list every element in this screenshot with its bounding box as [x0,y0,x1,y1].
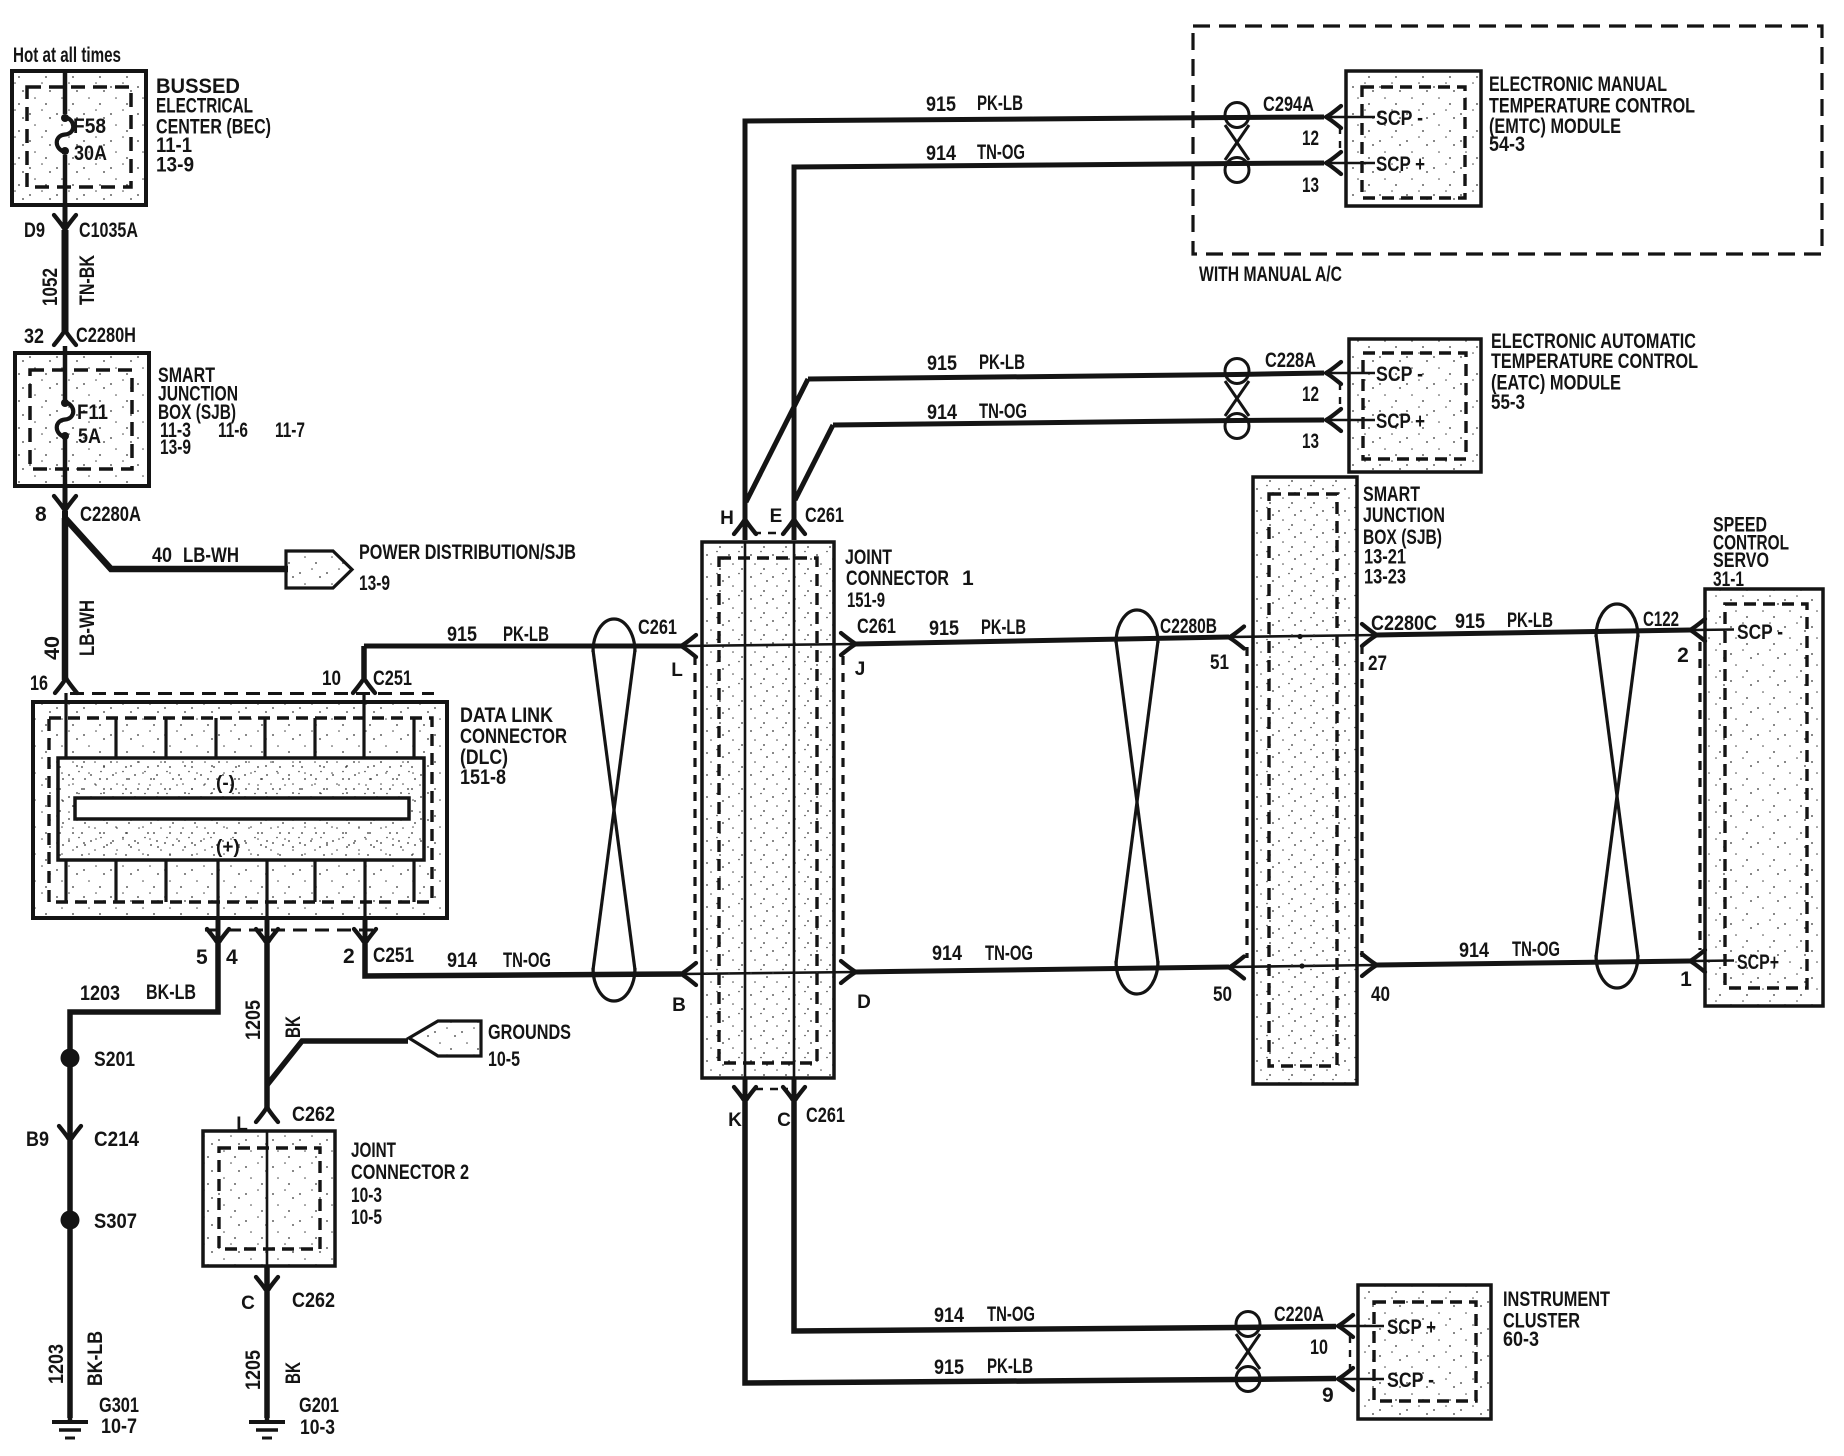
svg-text:11-6: 11-6 [218,419,248,442]
svg-text:ELECTRONIC MANUAL: ELECTRONIC MANUAL [1489,73,1667,96]
label WITH MANUAL A/C [1199,263,1342,286]
svg-text:POWER DISTRIBUTION/SJB: POWER DISTRIBUTION/SJB [359,541,576,564]
svg-text:(+): (+) [216,837,240,858]
EATC module box [1349,339,1481,472]
label 914 TN-OG EATC [927,400,1027,424]
svg-text:SCP -: SCP - [1737,621,1783,644]
svg-text:5: 5 [196,946,208,969]
label SJB right text [1363,483,1445,589]
svg-text:PK-LB: PK-LB [977,92,1023,115]
svg-text:8: 8 [35,503,47,526]
svg-text:13-9: 13-9 [156,154,194,177]
wire 915 JC1 to SJB [856,637,1229,644]
label C228A pins [1265,349,1319,453]
DLC C251 top dashed line [70,692,434,695]
svg-text:C261: C261 [805,504,844,527]
svg-text:B: B [672,995,686,1016]
grounds pointer [409,1021,571,1071]
svg-text:914: 914 [1459,939,1489,962]
wire 914 TN-OG DLC to JC1 [365,944,681,976]
wire 915 H vertical [743,121,748,1078]
junction dots in SJB [1297,634,1304,969]
svg-text:TN-BK: TN-BK [76,255,99,305]
joint connector 2 box [203,1131,335,1266]
label 915 PK-LB left [447,623,549,646]
svg-text:C2280C: C2280C [1371,612,1437,635]
label DLC text [460,704,567,789]
label SCP cluster [1387,1316,1436,1392]
connector C261 J arrow [841,615,896,680]
svg-text:F11: F11 [77,401,108,424]
svg-text:TN-OG: TN-OG [503,949,551,972]
label 915 PK-LB bottom [934,1355,1033,1379]
svg-text:915: 915 [929,617,959,640]
bussed electrical center (BEC) box [12,71,146,205]
label SCP EATC [1376,363,1425,433]
label servo text [1713,514,1789,592]
svg-text:13-9: 13-9 [359,572,390,595]
svg-text:SMART: SMART [1363,483,1420,506]
label SCP servo [1737,621,1783,974]
svg-text:1203: 1203 [80,982,120,1005]
smart junction box right [1253,477,1357,1084]
svg-text:BK: BK [282,1362,305,1384]
svg-text:40: 40 [1371,983,1390,1006]
label cluster text [1503,1288,1610,1351]
svg-text:BK-LB: BK-LB [84,1331,107,1386]
svg-text:LB-WH: LB-WH [76,600,99,656]
svg-text:PK-LB: PK-LB [987,1355,1033,1378]
svg-text:G201: G201 [299,1394,339,1417]
splice S307 [61,1210,138,1233]
wire thin through JC2 [266,1131,269,1266]
label joint connector 2 [351,1139,469,1229]
label SCP EMTC [1376,107,1425,176]
svg-text:DATA LINK: DATA LINK [460,704,553,727]
wire 914 to EATC [795,420,1324,500]
connector C261 C arrow [777,1078,845,1131]
svg-text:SCP -: SCP - [1376,107,1423,130]
svg-text:TN-OG: TN-OG [987,1303,1035,1326]
svg-text:B9: B9 [26,1128,49,1151]
label 914 TN-OG right [1459,938,1560,962]
connector C2280H pin 32 [24,324,136,348]
joint connector 1 box [702,542,834,1078]
svg-text:TEMPERATURE CONTROL: TEMPERATURE CONTROL [1491,350,1698,373]
wire 915 thin through JC1 [681,644,856,646]
svg-text:914: 914 [934,1304,964,1327]
label 914 TN-OG bottom [934,1303,1035,1327]
wire 914 thin through SJB [1229,965,1377,967]
svg-text:TN-OG: TN-OG [979,400,1027,423]
svg-text:SCP -: SCP - [1376,363,1423,386]
label 915 PK-LB EATC [927,351,1025,375]
wire 40 LB-WH vertical [62,518,69,680]
wire 1052 TN-BK [62,230,69,333]
label 914 TN-OG EMTC [926,141,1025,165]
instrument cluster box [1358,1285,1491,1419]
twisted pair at C294A [1225,103,1249,183]
wire 914 SJB to servo [1377,961,1690,965]
svg-text:INSTRUMENT: INSTRUMENT [1503,1288,1610,1311]
svg-text:C261: C261 [638,616,677,639]
connector C228A arrows [1326,362,1375,431]
svg-text:C214: C214 [94,1128,139,1151]
label 915 PK-LB EMTC [926,92,1023,116]
svg-text:E: E [770,506,783,527]
connector C214 arrow B9 [26,1126,139,1151]
svg-text:C: C [777,1110,791,1131]
svg-text:BK: BK [282,1016,305,1038]
svg-text:J: J [855,659,866,680]
ground G201 [249,1394,339,1439]
label 1205 BK top [242,1000,305,1040]
connector C261 B arrow [672,963,696,1016]
with manual A/C dashed box [1193,26,1822,254]
svg-text:1052: 1052 [39,268,62,306]
wire 915 PK-LB DLC to JC1 [364,644,681,649]
connector C251 pin 4 arrow [226,918,278,969]
svg-text:D9: D9 [24,219,45,242]
wire 1205 BK pin4 down [264,944,270,1085]
wire 1205 BK to G201 [264,1292,270,1418]
svg-text:1: 1 [1680,968,1692,991]
fuse F11 5A [57,346,74,486]
wire 914 JC1 to SJB [856,967,1229,972]
connector C2280A pin 8 [35,486,141,526]
svg-text:151-8: 151-8 [460,766,506,789]
svg-text:2: 2 [1677,644,1689,667]
svg-text:PK-LB: PK-LB [981,616,1026,639]
label F58 30A [73,115,107,165]
DLC body [58,758,424,860]
svg-text:LB-WH: LB-WH [183,544,239,567]
svg-text:WITH MANUAL A/C: WITH MANUAL A/C [1199,263,1342,286]
svg-text:10-7: 10-7 [101,1415,137,1438]
svg-text:13: 13 [1302,174,1319,197]
svg-text:C220A: C220A [1274,1303,1324,1326]
wire 915 PK-LB to cluster [745,1102,1336,1383]
connector C1035A arrow D9 [24,205,138,242]
svg-text:TN-OG: TN-OG [985,942,1033,965]
svg-text:10-5: 10-5 [488,1048,520,1071]
connector C2280C arrow 40 [1362,954,1390,1006]
splice S201 [61,1048,136,1071]
svg-text:12: 12 [1302,127,1319,150]
svg-text:C2280H: C2280H [76,324,136,347]
twisted pair 915/914 mid [1116,610,1158,994]
svg-text:C261: C261 [806,1104,845,1127]
label 1205 BK bottom [242,1350,305,1390]
connector C122 arrow pin 1 [1680,950,1734,991]
svg-text:C: C [241,1293,255,1314]
svg-text:C262: C262 [292,1289,335,1312]
svg-text:PK-LB: PK-LB [979,351,1025,374]
wire 914 E vertical [792,167,797,1078]
svg-text:JOINT: JOINT [351,1139,396,1162]
svg-text:CONNECTOR: CONNECTOR [846,567,949,590]
wire 915 SJB to servo [1377,630,1690,635]
svg-text:SCP+: SCP+ [1737,951,1779,974]
label BEC text [156,75,271,177]
connector C2280B dashed side [1245,647,1248,958]
svg-text:F58: F58 [73,115,106,138]
svg-text:Hot at all times: Hot at all times [13,44,121,67]
fuse F58 30A [57,71,74,205]
svg-text:4: 4 [226,946,238,969]
svg-text:C251: C251 [373,944,414,967]
label 40 LB-WH vertical [41,600,99,660]
svg-text:JOINT: JOINT [845,546,892,569]
svg-text:10: 10 [322,667,341,690]
svg-text:PK-LB: PK-LB [1507,609,1553,632]
wire S201 to C214 [67,1058,73,1139]
DLC inner dashed outline [49,718,432,902]
svg-text:C262: C262 [292,1103,335,1126]
DLC pin teeth bottom [66,860,414,918]
wire 1203 BK-LB horizontal [70,944,218,1050]
svg-text:914: 914 [926,142,956,165]
svg-text:H: H [720,508,734,529]
DLC C251 bottom dashed line [205,929,378,932]
svg-text:TN-OG: TN-OG [1512,938,1560,961]
svg-text:SCP -: SCP - [1387,1369,1434,1392]
svg-text:CONNECTOR 2: CONNECTOR 2 [351,1161,469,1184]
svg-text:C228A: C228A [1265,349,1316,372]
label SJB text [158,364,305,459]
power distribution/SJB pointer [286,541,576,595]
svg-text:914: 914 [932,942,962,965]
DLC slot [75,798,409,819]
label C220A pins [1274,1303,1334,1407]
label (-) (+) [216,773,240,858]
wire 915 thin through SJB [1229,635,1377,637]
svg-text:1203: 1203 [45,1344,68,1384]
svg-text:10: 10 [1310,1336,1328,1359]
svg-text:13: 13 [1302,430,1319,453]
svg-text:13-9: 13-9 [160,436,191,459]
svg-text:40: 40 [41,636,64,660]
svg-text:C2280A: C2280A [80,503,141,526]
label 914 TN-OG mid [932,942,1033,965]
wire 915 to EATC [746,373,1324,502]
svg-text:K: K [728,1110,742,1131]
connector C251 pin 10 arrow [322,646,412,693]
svg-text:1205: 1205 [242,1000,265,1040]
svg-text:11-7: 11-7 [275,419,305,442]
svg-text:16: 16 [30,672,48,695]
svg-text:CONNECTOR: CONNECTOR [460,725,567,748]
svg-text:55-3: 55-3 [1491,391,1525,414]
svg-text:54-3: 54-3 [1489,133,1525,156]
svg-text:915: 915 [447,623,477,646]
svg-text:31-1: 31-1 [1713,568,1744,591]
wire grounds branch [267,1041,408,1085]
svg-text:G301: G301 [99,1394,139,1417]
svg-text:10-3: 10-3 [300,1416,335,1439]
wire 914 to EMTC [794,163,1324,169]
label 915 PK-LB mid [929,616,1026,640]
svg-text:BK-LB: BK-LB [146,981,196,1004]
svg-text:(-): (-) [216,773,235,794]
connector C2280C arrow 27 [1362,612,1437,675]
connector C251 pin 5 arrow [196,918,229,969]
label 1203 BK-LB vertical [45,1331,107,1386]
connector C261 H arrow [720,508,756,534]
svg-text:27: 27 [1368,652,1387,675]
svg-text:D: D [857,992,871,1013]
wire 914 TN-OG to cluster [794,1102,1336,1331]
speed control servo box [1705,589,1823,1006]
connector C122 dashed side [1698,642,1701,950]
svg-text:60-3: 60-3 [1503,1328,1539,1351]
svg-text:S307: S307 [94,1210,137,1233]
svg-text:SCP +: SCP + [1387,1316,1436,1339]
connector C294A arrows [1326,106,1375,174]
label EMTC text [1489,73,1695,156]
connector C262 arrow C [241,1266,335,1314]
svg-text:GROUNDS: GROUNDS [488,1021,571,1044]
connector C251 pin 16 arrow [30,672,77,695]
label 915 PK-LB right [1455,609,1553,633]
connector C2280B arrow 50 [1213,957,1244,1007]
wire 915 to EMTC [745,117,1324,123]
svg-text:9: 9 [1322,1384,1334,1407]
svg-text:2: 2 [343,945,355,968]
svg-text:JUNCTION: JUNCTION [1363,504,1445,527]
ground G301 [52,1394,139,1438]
svg-text:S201: S201 [94,1048,135,1071]
svg-text:PK-LB: PK-LB [503,623,549,646]
connector C2280C dashed side [1360,645,1363,957]
svg-text:10-3: 10-3 [351,1184,382,1207]
svg-text:ELECTRICAL: ELECTRICAL [156,95,253,118]
connector C261 K arrow [728,1078,756,1131]
svg-text:915: 915 [926,93,956,116]
svg-text:915: 915 [934,1356,964,1379]
svg-text:915: 915 [1455,610,1485,633]
svg-text:C1035A: C1035A [79,219,138,242]
svg-text:32: 32 [24,325,44,348]
twisted pair at C220A [1236,1312,1260,1392]
label joint connector 1 [845,546,974,612]
label 1203 BK-LB [80,981,196,1005]
svg-text:C251: C251 [373,667,412,690]
connector C220A arrows [1338,1315,1384,1390]
EMTC module box [1346,71,1481,206]
svg-text:5A: 5A [78,425,101,448]
connector C261 E arrow [770,504,845,534]
svg-text:30A: 30A [74,142,107,165]
connector C251 pin 2 arrow [343,918,414,968]
label Hot at all times [13,44,121,67]
svg-text:TN-OG: TN-OG [977,141,1025,164]
connector C261 L arrow [638,616,696,681]
C261 bottom dashed [755,1088,788,1091]
svg-text:L: L [671,660,683,681]
svg-text:50: 50 [1213,983,1232,1006]
label EATC text [1491,330,1698,414]
svg-text:51: 51 [1210,651,1229,674]
connector C262 arrow L [236,1085,335,1135]
svg-text:13-23: 13-23 [1364,566,1406,589]
twisted pair 915/914 left [593,619,635,1001]
svg-text:SCP +: SCP + [1376,410,1425,433]
connector C261 D arrow [841,961,871,1013]
svg-text:C122: C122 [1643,608,1679,631]
svg-text:914: 914 [447,949,477,972]
data link connector (DLC) box [33,702,447,918]
label C294A pins [1263,93,1319,197]
svg-text:914: 914 [927,401,957,424]
twisted pair at C228A [1225,359,1249,439]
wire 40 LB-WH branch to power distribution [65,511,288,569]
twisted pair 915/914 right [1596,604,1638,988]
svg-text:C2280B: C2280B [1160,615,1217,638]
wire S307 to G301 [67,1220,73,1418]
svg-text:C261: C261 [857,615,896,638]
svg-text:12: 12 [1302,383,1319,406]
wire 914 thin through JC1 [681,972,856,974]
svg-text:1205: 1205 [242,1350,265,1390]
label 40 LB-WH horizontal [152,544,239,567]
label 1052 TN-BK [39,255,99,306]
C261 top dashed [753,532,786,535]
smart junction box (SJB) with F11 [15,353,149,486]
wire C214 to S307 [67,1141,73,1220]
svg-text:40: 40 [152,544,172,567]
svg-text:C294A: C294A [1263,93,1314,116]
DLC pin teeth top [66,693,414,758]
svg-text:SCP +: SCP + [1376,153,1425,176]
connector C261 dashed sides [695,656,843,962]
svg-text:10-5: 10-5 [351,1206,382,1229]
label 914 TN-OG left [447,949,551,972]
svg-text:915: 915 [927,352,957,375]
svg-text:1: 1 [962,567,974,590]
connector C2280B arrow 51 [1160,615,1244,674]
label F11 5A [77,401,108,448]
svg-text:151-9: 151-9 [847,589,885,612]
connector C122 arrow pin 2 [1643,608,1734,667]
